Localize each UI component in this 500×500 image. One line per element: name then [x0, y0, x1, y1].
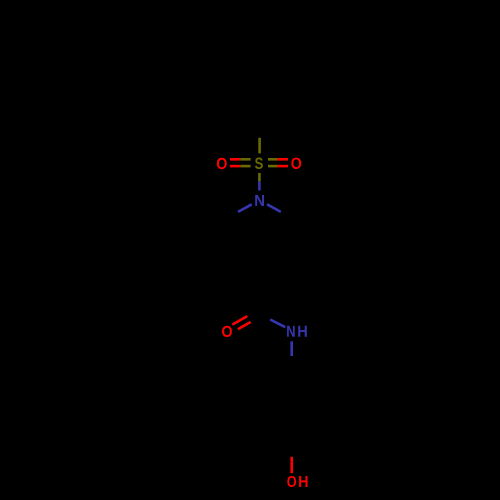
wire: bond S - N piperidine [258, 173, 261, 181]
wire: bond amide C - NH (N half) [270, 320, 285, 328]
sulfonyl O right label [291, 158, 301, 169]
wire: amide C=O double bond (O-colored part) [232, 316, 247, 325]
sulfonyl O left label [217, 158, 227, 169]
wire: bond phenol C4 - OH (O half) [290, 457, 293, 473]
wire: bond NH - phenol C1 (N half) [290, 341, 293, 356]
sulfur S label [255, 158, 263, 170]
wire: S=O left double bond [230, 158, 240, 161]
wire: S=O right double bond [268, 158, 277, 161]
phenol O-H label [287, 476, 296, 487]
amide O label [222, 326, 232, 337]
amide N-H label [287, 326, 295, 337]
wire: bond N - C6 piperidine (N half) [238, 204, 252, 212]
wire: bond N - C2 piperidine (N half) [267, 204, 281, 212]
wire: bond benzene C1 - S (S-colored half) [258, 138, 261, 154]
piperidine N label [255, 195, 264, 206]
